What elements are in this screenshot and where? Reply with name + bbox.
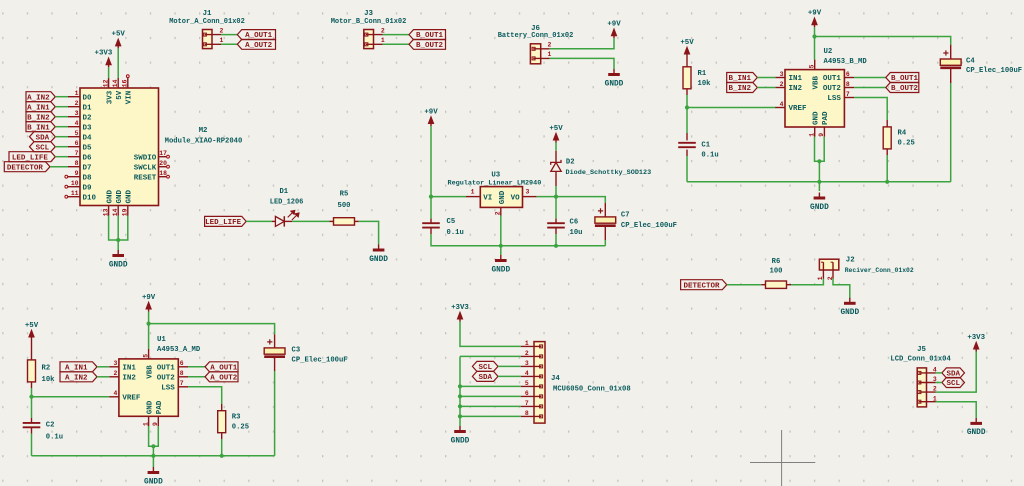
svg-text:VIN: VIN <box>126 91 134 105</box>
global label B_OUT2 (U2) <box>886 83 919 94</box>
crosshair cursor <box>750 430 815 486</box>
pin C3 top <box>274 334 276 348</box>
svg-text:1: 1 <box>142 422 149 426</box>
wire U2 GND drop <box>818 161 820 191</box>
wire J5.1 to GNDD <box>936 402 977 418</box>
ground symbol GNDD (M2) <box>109 250 128 269</box>
ground symbol GNDD (U3) <box>491 255 510 274</box>
wire SDA to J4.4 <box>498 375 521 377</box>
svg-text:9: 9 <box>818 133 825 137</box>
pin R4 bottom <box>886 149 888 155</box>
svg-text:A_OUT2: A_OUT2 <box>245 42 273 50</box>
svg-text:13: 13 <box>102 208 109 216</box>
wire R2 to C2 <box>31 388 33 418</box>
svg-text:R5: R5 <box>340 190 349 198</box>
power symbol +5V (R2) <box>25 322 39 340</box>
wire SCL to M2 <box>55 146 68 148</box>
global label A_OUT2 (J1) <box>237 39 275 50</box>
svg-text:3: 3 <box>526 188 530 195</box>
power symbol +5V (M2) <box>112 31 126 49</box>
pin C6 bottom <box>555 228 557 234</box>
svg-text:OUT2: OUT2 <box>823 85 842 93</box>
junction U1 gnd rail <box>151 454 155 458</box>
svg-text:B_OUT2: B_OUT2 <box>416 42 444 50</box>
wire U3 ground rail <box>431 234 605 246</box>
svg-text:D2: D2 <box>83 114 93 122</box>
svg-text:D7: D7 <box>83 164 92 172</box>
resistor R2 10k <box>28 360 56 384</box>
svg-text:GND: GND <box>126 189 134 203</box>
svg-text:D0: D0 <box>83 94 93 102</box>
svg-text:8: 8 <box>525 410 529 417</box>
svg-text:0.25: 0.25 <box>232 423 249 431</box>
svg-text:MCU6050_Conn_01x08: MCU6050_Conn_01x08 <box>553 386 631 394</box>
svg-text:10: 10 <box>71 180 79 187</box>
svg-text:DETECTOR: DETECTOR <box>683 282 720 290</box>
wire U3 VO to +5V net / C7 <box>537 197 606 203</box>
svg-text:LED_LIFE: LED_LIFE <box>205 219 242 227</box>
svg-text:GNDD: GNDD <box>369 256 388 264</box>
svg-text:GND: GND <box>812 111 820 125</box>
svg-text:IN2: IN2 <box>122 374 136 382</box>
op-amp driver U2 A4953_B_MD <box>775 48 867 137</box>
svg-text:+9V: +9V <box>607 21 621 29</box>
wire J4.7 to gnd bus <box>460 405 521 407</box>
svg-text:2: 2 <box>75 100 79 107</box>
wire R3 to rail <box>221 439 223 456</box>
pin C7 bottom <box>604 227 606 240</box>
ground symbol GNDD (J5) <box>967 418 986 437</box>
junction VI/C5 <box>429 195 433 199</box>
junction J4 gnd bus 8 <box>458 414 462 418</box>
svg-text:2: 2 <box>525 350 529 357</box>
svg-text:6: 6 <box>846 71 850 78</box>
module M2 Module_XIAO-RP2040 <box>65 75 242 216</box>
svg-text:LED_1206: LED_1206 <box>270 198 304 206</box>
svg-text:D6: D6 <box>83 154 93 162</box>
global label B_OUT1 (J3) <box>409 30 446 41</box>
svg-text:+9V: +9V <box>808 10 822 18</box>
svg-text:D2: D2 <box>566 159 575 167</box>
svg-text:20: 20 <box>159 160 167 167</box>
svg-text:SDA: SDA <box>478 374 492 382</box>
junction J4 gnd bus 7 <box>458 404 462 408</box>
svg-text:6: 6 <box>75 140 79 147</box>
svg-text:3V3: 3V3 <box>106 90 114 104</box>
global label A_OUT2 (U1) <box>205 372 238 383</box>
svg-text:+3V3: +3V3 <box>95 50 113 58</box>
svg-text:J4: J4 <box>551 375 560 383</box>
svg-text:C1: C1 <box>701 142 710 150</box>
svg-text:IN1: IN1 <box>789 75 803 83</box>
pin C2 top <box>31 418 33 423</box>
wire LED_LIFE to M2 <box>55 156 68 158</box>
svg-text:100: 100 <box>770 267 783 275</box>
junction U3 gnd rail <box>499 244 503 248</box>
connector J3 Motor_B_Conn_01x02 <box>331 10 407 49</box>
svg-text:CP_Elec_100uF: CP_Elec_100uF <box>966 67 1022 75</box>
svg-text:PAD: PAD <box>156 400 164 414</box>
svg-text:R2: R2 <box>42 364 51 372</box>
svg-text:17: 17 <box>159 150 167 157</box>
power symbol +3V3 (J5) <box>967 334 985 352</box>
svg-text:14: 14 <box>112 79 119 87</box>
svg-text:5: 5 <box>525 380 529 387</box>
svg-text:SWCLK: SWCLK <box>134 164 157 172</box>
global label B_OUT2 (J3) <box>409 39 446 50</box>
svg-text:7: 7 <box>525 400 529 407</box>
svg-text:OUT1: OUT1 <box>823 75 842 83</box>
svg-text:B_IN2: B_IN2 <box>729 85 752 93</box>
global label A_OUT1 (J1) <box>237 30 275 41</box>
svg-text:1: 1 <box>808 133 815 137</box>
wire D2 to C6 <box>555 186 557 219</box>
wire SDA to M2 <box>55 136 68 138</box>
wire U2 OUT1 to B_OUT1 <box>854 77 886 79</box>
svg-text:5: 5 <box>142 354 149 358</box>
svg-text:+9V: +9V <box>142 294 156 302</box>
LED D1 LED_1206 <box>270 188 304 227</box>
svg-text:500: 500 <box>338 202 351 210</box>
svg-text:J1: J1 <box>203 10 212 18</box>
svg-text:9: 9 <box>75 170 79 177</box>
pin C1 bottom <box>686 150 688 156</box>
svg-text:8: 8 <box>846 81 850 88</box>
wire J4.5 to gnd bus <box>460 385 521 387</box>
wire B_IN2 to U2 <box>757 87 775 89</box>
global label A_IN1 (U1) <box>60 362 97 373</box>
wire C1 to gnd rail <box>686 156 688 182</box>
wire B_IN1 to M2 <box>55 126 68 128</box>
wire DETECTOR to R6 <box>727 284 762 286</box>
svg-text:VI: VI <box>483 194 492 202</box>
global label B_OUT1 (U2) <box>886 73 919 84</box>
power symbol +5V (D2) <box>549 125 563 143</box>
capacitor C3 CP_Elec_100uF (polarized) <box>264 339 347 364</box>
wire +9V to VI / C5 <box>430 126 432 219</box>
global label SDA (M2) <box>30 132 56 143</box>
wire U1 ground rail <box>32 455 275 457</box>
svg-text:LSS: LSS <box>161 384 175 392</box>
junction J4 gnd bus 5 <box>458 384 462 388</box>
svg-text:R6: R6 <box>772 258 781 266</box>
svg-text:2: 2 <box>220 27 224 34</box>
wire J4 gnd bus <box>459 356 461 426</box>
svg-text:1: 1 <box>817 276 824 280</box>
wire B_IN2 to M2 <box>55 116 68 118</box>
wire R5 to GNDD <box>359 221 379 244</box>
wire U1 LSS to R3 <box>188 387 222 404</box>
svg-text:RESET: RESET <box>134 174 157 182</box>
connector J2 Reciver_Conn_01x02 <box>819 257 913 279</box>
global label B_IN2 (U2) <box>727 83 758 94</box>
svg-text:D10: D10 <box>83 194 97 202</box>
wire +9V to U1 VBB <box>148 312 150 349</box>
svg-text:Motor_B_Conn_01x02: Motor_B_Conn_01x02 <box>331 18 407 26</box>
wire VREF U1 <box>32 396 110 398</box>
svg-text:A_OUT2: A_OUT2 <box>210 374 238 382</box>
svg-text:+5V: +5V <box>112 31 126 39</box>
svg-text:0.1u: 0.1u <box>447 229 464 237</box>
power symbol +9V (U2) <box>808 10 822 28</box>
svg-text:A4953_B_MD: A4953_B_MD <box>824 58 868 66</box>
svg-text:2: 2 <box>548 42 552 49</box>
ground symbol GNDD (U2) <box>810 193 829 212</box>
wire R6 to J2.1 <box>791 279 823 285</box>
svg-text:GNDD: GNDD <box>491 266 510 274</box>
svg-text:A4953_A_MD: A4953_A_MD <box>157 346 201 354</box>
capacitor C7 CP_Elec_100uF (polarized) <box>595 208 677 230</box>
pin R3 top <box>221 404 223 411</box>
global label SCL (J5) <box>942 378 965 389</box>
svg-text:Module_XIAO-RP2040: Module_XIAO-RP2040 <box>165 138 243 146</box>
svg-text:3: 3 <box>75 110 79 117</box>
svg-text:R3: R3 <box>232 414 241 422</box>
svg-text:8: 8 <box>75 160 79 167</box>
svg-text:IN1: IN1 <box>122 364 136 372</box>
wire R4 to gnd rail <box>886 155 888 182</box>
svg-text:J5: J5 <box>917 346 926 354</box>
ground symbol GNDD (R5) <box>369 245 388 264</box>
svg-text:C4: C4 <box>966 57 975 65</box>
svg-text:DETECTOR: DETECTOR <box>7 164 44 172</box>
wire DETECTOR to M2 <box>50 166 68 168</box>
wire C3 to rail <box>274 371 276 456</box>
wire VREF U2 <box>687 107 776 109</box>
svg-text:5V: 5V <box>116 90 124 100</box>
junction +9V/C4 <box>812 34 816 38</box>
power symbol +9V (J6) <box>607 21 621 39</box>
svg-text:1: 1 <box>548 51 552 58</box>
wire C4 to gnd rail <box>950 83 952 182</box>
global label LED_LIFE (D1) <box>205 216 247 227</box>
wire U2 ground rail <box>687 181 951 183</box>
resistor R3 0.25 <box>218 411 249 433</box>
pin R2 top <box>31 340 33 360</box>
svg-text:3: 3 <box>525 360 529 367</box>
svg-text:1: 1 <box>471 188 475 195</box>
svg-text:2: 2 <box>381 27 385 34</box>
resistor R6 100 <box>766 258 787 288</box>
wire U2 LSS to R4 <box>854 98 887 121</box>
svg-text:U1: U1 <box>157 336 166 344</box>
wire +3V3 to M2 pin12 <box>108 67 110 78</box>
svg-text:5: 5 <box>808 64 815 68</box>
global label SCL (M2) <box>30 142 56 153</box>
wire +9V to C4 <box>815 37 951 45</box>
svg-text:11: 11 <box>71 190 79 197</box>
ground symbol GNDD (U1) <box>144 467 163 486</box>
svg-text:A_IN2: A_IN2 <box>65 374 88 382</box>
svg-text:GNDD: GNDD <box>451 437 470 445</box>
svg-text:OUT1: OUT1 <box>157 364 176 372</box>
svg-text:4: 4 <box>75 120 79 127</box>
svg-text:+5V: +5V <box>680 39 694 47</box>
pin C5 top <box>430 219 432 224</box>
svg-text:0.1u: 0.1u <box>46 433 63 441</box>
svg-text:IN2: IN2 <box>789 85 803 93</box>
global label A_IN2 (M2) <box>26 92 55 103</box>
power symbol +9V (U3) <box>424 108 438 126</box>
svg-text:Regulator_Linear_LM2940: Regulator_Linear_LM2940 <box>447 179 541 187</box>
svg-text:C2: C2 <box>46 422 55 430</box>
svg-text:9: 9 <box>152 422 159 426</box>
svg-text:6: 6 <box>180 360 184 367</box>
pin C7 top <box>604 203 606 217</box>
svg-text:D5: D5 <box>83 144 93 152</box>
svg-text:2: 2 <box>780 81 784 88</box>
svg-text:0.1u: 0.1u <box>701 152 718 160</box>
svg-text:D3: D3 <box>83 124 93 132</box>
svg-text:LSS: LSS <box>827 95 841 103</box>
wire J1.2 to A_OUT1 <box>221 34 237 36</box>
wire J2.2 to GNDD <box>833 279 850 298</box>
svg-text:VBB: VBB <box>812 75 820 89</box>
pin R5 left <box>330 220 334 222</box>
connector J6 Battery_Conn_01x02 <box>498 25 574 64</box>
wire U2 GND pins join <box>815 137 825 162</box>
capacitor C6 10u <box>547 219 582 238</box>
svg-text:16: 16 <box>122 79 129 87</box>
svg-text:+5V: +5V <box>25 322 39 330</box>
wire C7 to rail <box>604 240 606 246</box>
svg-text:B_OUT2: B_OUT2 <box>891 85 919 93</box>
wire J6.1 to GNDD <box>550 58 614 69</box>
global label DETECTOR (J2) <box>681 280 727 291</box>
global label DETECTOR (M2) <box>4 162 50 173</box>
wire J5.4 to SDA <box>936 372 942 374</box>
wire C6 to rail <box>555 234 557 246</box>
svg-text:+3V3: +3V3 <box>967 334 985 342</box>
pin R2 bottom <box>31 382 33 388</box>
connector J5 LCD_Conn_01x04 <box>890 346 951 407</box>
wire U3 GND to rail <box>500 216 502 256</box>
svg-text:GNDD: GNDD <box>109 261 128 269</box>
global label B_IN2 (M2) <box>26 112 55 123</box>
wire +5V to M2 pin14 <box>117 48 119 78</box>
capacitor C2 0.1u <box>23 422 63 442</box>
pin R1 bottom <box>686 89 688 95</box>
resistor R1 10k <box>683 67 711 89</box>
op-amp driver U1 A4953_A_MD <box>109 336 201 426</box>
wire A_IN1 to M2 <box>55 106 68 108</box>
capacitor C5 0.1u <box>422 218 464 237</box>
svg-text:LCD_Conn_01x04: LCD_Conn_01x04 <box>890 355 951 363</box>
wire U1 GND pins join <box>149 426 159 446</box>
ground symbol GNDD (J2) <box>840 298 859 317</box>
svg-text:CP_Elec_100uF: CP_Elec_100uF <box>292 357 348 365</box>
svg-text:6: 6 <box>525 390 529 397</box>
svg-text:VBB: VBB <box>146 365 154 379</box>
pin C6 top <box>555 219 557 224</box>
svg-text:1: 1 <box>525 340 529 347</box>
svg-text:7: 7 <box>75 150 79 157</box>
power symbol +3V3 (M2) <box>95 50 113 68</box>
svg-text:10u: 10u <box>570 229 583 237</box>
svg-text:D4: D4 <box>83 134 93 142</box>
wire A_IN2 to U1 <box>97 376 109 378</box>
svg-text:GNDD: GNDD <box>810 204 829 212</box>
svg-text:C7: C7 <box>621 212 630 220</box>
wire +9V to C3 <box>149 324 275 335</box>
pin C3 bottom <box>274 358 276 371</box>
wire +9V to U3 VI <box>431 196 466 198</box>
svg-text:SWDIO: SWDIO <box>134 154 157 162</box>
wire J3.2 to B_OUT1 <box>383 34 410 36</box>
svg-text:1: 1 <box>381 37 385 44</box>
svg-text:C6: C6 <box>570 219 579 227</box>
svg-text:VO: VO <box>511 194 521 202</box>
svg-text:3: 3 <box>780 71 784 78</box>
svg-text:10k: 10k <box>698 80 712 88</box>
pin R3 bottom <box>221 433 223 439</box>
wire LED_LIFE to D1 <box>246 220 272 222</box>
svg-text:VREF: VREF <box>789 105 808 113</box>
wire D1 to R5 <box>292 220 330 222</box>
svg-text:C5: C5 <box>447 218 456 226</box>
junction +9V/C3 <box>147 322 151 326</box>
wire M2 GND pins join <box>109 216 128 241</box>
global label A_IN2 (U1) <box>60 372 97 383</box>
svg-text:GNDD: GNDD <box>967 429 986 437</box>
svg-text:J2: J2 <box>846 257 855 265</box>
svg-text:19: 19 <box>122 208 129 216</box>
svg-text:GND: GND <box>116 189 124 203</box>
power symbol +5V (R1) <box>680 39 694 57</box>
junction R2/C2/VREF U1 <box>29 395 33 399</box>
wire J4.8 to gnd bus <box>460 415 521 417</box>
junction U1 gnd join <box>151 444 155 448</box>
svg-text:Reciver_Conn_01x02: Reciver_Conn_01x02 <box>845 267 914 274</box>
svg-text:D9: D9 <box>83 184 93 192</box>
wire J3.1 to B_OUT2 <box>383 43 410 45</box>
svg-text:1: 1 <box>220 37 224 44</box>
wire U1 GND drop <box>152 446 154 467</box>
svg-text:GND: GND <box>499 190 507 204</box>
svg-text:+3V3: +3V3 <box>451 304 469 312</box>
pin C4 bottom <box>950 69 952 83</box>
svg-text:R4: R4 <box>898 130 907 138</box>
junction VO/D2/C6 <box>554 195 558 199</box>
svg-text:4: 4 <box>114 390 118 397</box>
global label A_OUT1 (U1) <box>205 362 238 373</box>
wire A_IN2 to M2 <box>55 96 68 98</box>
svg-text:C3: C3 <box>292 346 301 354</box>
svg-text:D1: D1 <box>279 188 288 196</box>
svg-text:8: 8 <box>180 370 184 377</box>
svg-text:OUT2: OUT2 <box>157 374 176 382</box>
wire C2 to rail <box>31 434 33 456</box>
wire +3V3 to J4.1 <box>460 322 521 347</box>
svg-text:7: 7 <box>846 91 850 98</box>
svg-text:J3: J3 <box>364 10 373 18</box>
pin C2 bottom <box>31 427 33 433</box>
global label SDA (J5) <box>942 368 965 379</box>
power symbol +3V3 (J4) <box>451 304 469 322</box>
wire M2 GND center drop <box>117 216 119 251</box>
svg-text:SCL: SCL <box>946 380 960 388</box>
junction R3/rail <box>220 454 224 458</box>
wire U2 OUT2 to B_OUT2 <box>854 87 886 89</box>
wire SCL to J4.3 <box>498 365 521 367</box>
pin C4 top <box>950 45 952 59</box>
svg-text:4: 4 <box>525 370 529 377</box>
wire +9V to U2 VBB <box>814 27 816 59</box>
global label A_IN1 (M2) <box>26 102 55 113</box>
svg-text:GNDD: GNDD <box>840 309 859 317</box>
svg-text:3: 3 <box>114 360 118 367</box>
svg-text:4: 4 <box>780 101 784 108</box>
